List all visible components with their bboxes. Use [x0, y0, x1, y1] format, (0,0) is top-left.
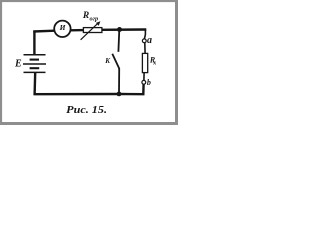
wire left vertical lower: [33, 72, 36, 95]
switch K lower wire: [118, 69, 120, 95]
svg-text:b: b: [147, 78, 151, 87]
wire right branch upper: [144, 30, 145, 39]
switch K blade: [112, 54, 119, 69]
wire meter-to-rheostat: [71, 29, 84, 32]
resistor Rx: [142, 53, 147, 72]
battery E plate long 2: [23, 63, 46, 65]
battery E plate short 1: [30, 59, 39, 61]
battery E plate long 1: [24, 54, 46, 56]
svg-text:И: И: [59, 23, 67, 32]
wire right branch lower: [119, 84, 143, 94]
battery E plate long 3: [24, 71, 46, 73]
svg-text:x: x: [152, 61, 156, 67]
rheostat Rogr arrow: [81, 24, 98, 40]
svg-text:Рис. 15.: Рис. 15.: [66, 105, 107, 116]
meter U1 circle: [54, 21, 70, 37]
switch K stub: [117, 30, 120, 52]
wire bottom: [34, 93, 120, 96]
terminal a: [142, 39, 146, 43]
border frame (decorative): [0, 0, 178, 2]
junction dot bottom: [117, 92, 122, 97]
wire rheostat-to-corner top: [102, 28, 147, 31]
svg-text:огр: огр: [90, 15, 99, 22]
terminal b: [142, 80, 146, 84]
wire Rx-to-b: [143, 73, 145, 81]
rheostat Rogr body: [83, 28, 102, 33]
wire left vertical upper: [33, 31, 35, 55]
svg-text:E: E: [14, 58, 22, 69]
wire a-to-Rx: [144, 43, 146, 54]
junction dot top: [117, 27, 122, 32]
battery E plate short 2: [30, 67, 40, 69]
svg-text:R: R: [82, 11, 89, 21]
wire top-left horizontal: [33, 30, 54, 33]
svg-text:a: a: [147, 35, 152, 46]
